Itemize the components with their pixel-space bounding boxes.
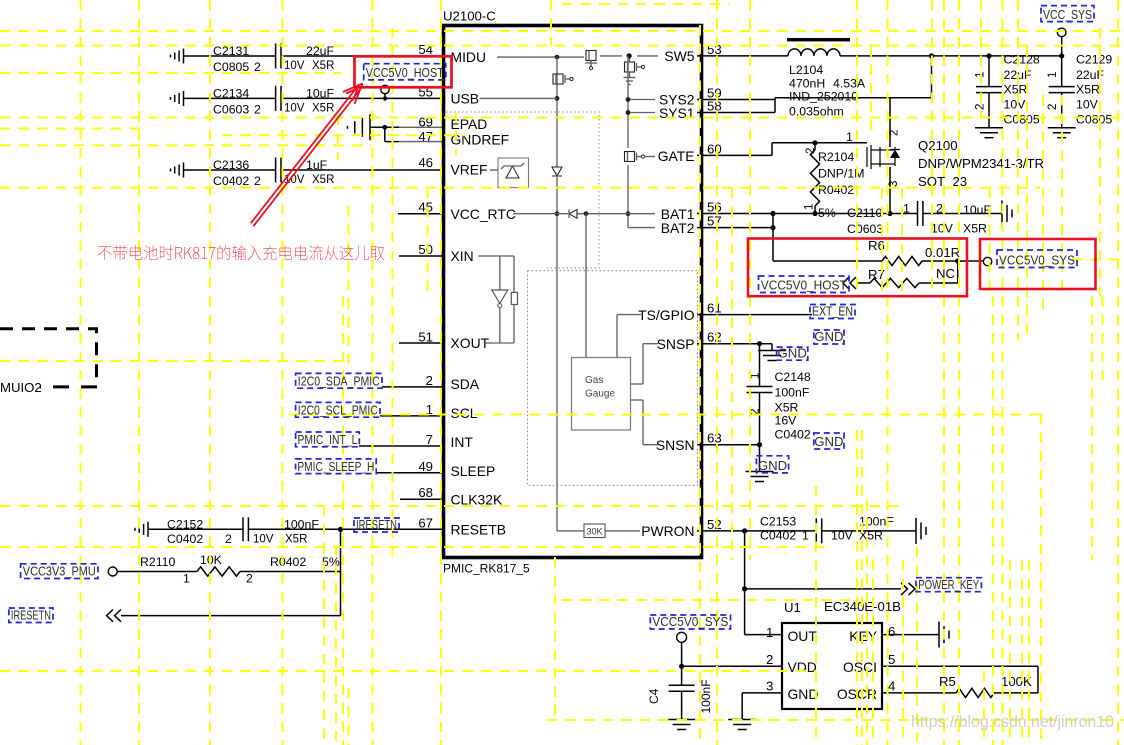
svg-text:DNP/WPM2341-3/TR: DNP/WPM2341-3/TR (918, 156, 1044, 171)
svg-text:VDD: VDD (788, 659, 817, 675)
wire pin51 XOUT stub (399, 342, 442, 344)
zener VREF box (490, 158, 529, 188)
svg-text:1: 1 (750, 373, 762, 379)
svg-text:X5R: X5R (312, 60, 334, 72)
svg-text:OUT: OUT (788, 628, 818, 644)
svg-text:100nF: 100nF (699, 679, 713, 713)
svg-text:R5: R5 (939, 674, 956, 689)
svg-text:XOUT: XOUT (451, 335, 490, 351)
transistor Q2100 DNP/WPM2341-3/TR (867, 98, 1044, 214)
svg-text:10uF: 10uF (963, 203, 992, 217)
svg-text:Gauge: Gauge (585, 389, 615, 400)
svg-text:50: 50 (418, 242, 433, 257)
pin numbers right (707, 42, 722, 532)
node PMIC_SLEEP_H label (296, 459, 377, 474)
wire internal SNSP (631, 344, 659, 384)
svg-text:X5R: X5R (1004, 83, 1028, 97)
svg-text:1: 1 (766, 625, 773, 640)
svg-text:GATE: GATE (658, 148, 695, 164)
svg-text:SNSP: SNSP (657, 336, 695, 352)
node VCC5V0_SYS label U1 (650, 614, 730, 629)
node MUIO2 dashed block (0, 329, 97, 395)
node GND label 3 (814, 433, 844, 449)
svg-text:100nF: 100nF (284, 518, 319, 532)
svg-text:54: 54 (418, 42, 433, 57)
svg-text:PWRON: PWRON (641, 523, 694, 539)
wire SYS feedback (697, 56, 932, 113)
svg-text:USB: USB (451, 91, 480, 107)
node GND label 4 (756, 456, 788, 473)
capacitor C2131 22uF (171, 44, 443, 75)
svg-text:470nH: 470nH (789, 77, 825, 91)
svg-text:BAT2: BAT2 (661, 220, 695, 236)
svg-text:1: 1 (183, 572, 190, 586)
svg-text:C0805: C0805 (1004, 113, 1040, 127)
pin numbers left (418, 42, 433, 530)
svg-text:C2148: C2148 (775, 370, 811, 384)
svg-text:GND: GND (758, 458, 787, 473)
svg-text:X5R: X5R (285, 534, 307, 546)
node dotted section boundaries (446, 112, 698, 485)
wire internal vertical bus (555, 57, 560, 531)
node VCC5V0_HOST label R7 (759, 276, 850, 293)
svg-text:SNSN: SNSN (656, 437, 695, 453)
svg-text:SCL: SCL (451, 405, 478, 421)
capacitor C2136 1uF (171, 158, 443, 189)
svg-text:61: 61 (707, 301, 722, 316)
svg-text:X5R: X5R (775, 401, 799, 415)
wire PMIC_SLEEP_H to pin49 (376, 472, 442, 474)
wire internal SYS vertical (626, 56, 631, 228)
wire U1 OSCI (882, 666, 1038, 693)
svg-text:C2110: C2110 (847, 206, 882, 220)
svg-text:47: 47 (418, 129, 433, 144)
svg-text:SLEEP: SLEEP (451, 463, 496, 479)
svg-text:10V: 10V (931, 222, 954, 236)
svg-text:2: 2 (246, 572, 253, 586)
capacitor C2148 100nF (747, 344, 811, 445)
svg-text:IRESETN: IRESETN (356, 517, 397, 532)
wire I2C0_SDA_PMIC to pin2 (382, 386, 442, 388)
node VCC5V0_SYS label mid (997, 250, 1077, 268)
svg-text:XIN: XIN (451, 248, 474, 264)
svg-text:Q2100: Q2100 (918, 138, 958, 153)
svg-text:C0402: C0402 (167, 532, 203, 546)
ground at SNSP (697, 341, 786, 360)
svg-text:51: 51 (418, 330, 433, 345)
svg-text:49: 49 (418, 459, 433, 474)
svg-text:2: 2 (254, 174, 261, 188)
svg-text:2: 2 (889, 130, 901, 136)
svg-text:1: 1 (903, 202, 910, 216)
svg-text:10V: 10V (284, 102, 305, 114)
svg-text:SW5: SW5 (664, 48, 694, 64)
svg-text:100K: 100K (1001, 674, 1032, 689)
wire U1 KEY ground (882, 622, 949, 648)
svg-text:U2100-C: U2100-C (443, 9, 496, 24)
svg-text:R0402: R0402 (270, 555, 306, 569)
node POWER_KEY label (916, 577, 981, 592)
svg-text:100nF: 100nF (775, 386, 810, 400)
transistor internal M4 GATE (625, 152, 656, 162)
wire PMIC_INT_L to pin7 (359, 445, 442, 447)
svg-text:MUIO2: MUIO2 (0, 380, 42, 395)
crystal oscillator XIN/XOUT (478, 256, 518, 343)
capacitor C2152 100nF (135, 517, 442, 546)
svg-text:R2104: R2104 (818, 150, 854, 164)
svg-text:OSCI: OSCI (843, 659, 877, 675)
svg-text:VCC_SYS: VCC_SYS (1043, 7, 1092, 22)
svg-text:C0805: C0805 (1076, 113, 1112, 127)
svg-text:C2153: C2153 (760, 515, 796, 529)
svg-text:https://blog.csdn.net/jinron10: https://blog.csdn.net/jinron10 (911, 712, 1114, 731)
capacitor C2110 10uF (697, 201, 1012, 262)
svg-text:10V: 10V (831, 529, 854, 543)
svg-text:10V: 10V (1004, 98, 1027, 112)
wire GATE (697, 130, 867, 155)
svg-text:C2136: C2136 (213, 158, 249, 172)
transistor internal M2 (624, 56, 645, 85)
svg-text:2: 2 (254, 102, 261, 116)
svg-text:VCC5V0_HOST: VCC5V0_HOST (761, 278, 847, 293)
wire pin50 XIN stub (399, 255, 442, 257)
svg-text:VREF: VREF (451, 161, 488, 177)
block 30K (557, 524, 640, 538)
svg-text:56: 56 (707, 200, 722, 215)
svg-text:2: 2 (225, 532, 232, 546)
svg-text:4: 4 (888, 679, 895, 694)
svg-text:X5R: X5R (312, 174, 334, 186)
svg-text:GND: GND (814, 329, 843, 344)
svg-text:U1: U1 (784, 600, 801, 615)
svg-text:C2129: C2129 (1076, 53, 1112, 67)
svg-text:46: 46 (418, 155, 433, 170)
resistor R7 NC (843, 261, 958, 289)
ground at SNSN (697, 442, 774, 481)
svg-text:C2134: C2134 (213, 86, 249, 100)
diode internal D1 down (552, 167, 562, 176)
svg-text:2: 2 (426, 373, 433, 388)
wire I2C0_SCL_PMIC to pin1 (380, 415, 442, 417)
svg-text:VCC5V0_HOST: VCC5V0_HOST (366, 65, 444, 80)
svg-text:C0805: C0805 (213, 60, 249, 74)
wire IRESETN to chevron (107, 610, 341, 622)
svg-text:1: 1 (802, 529, 809, 543)
svg-text:IND_252010: IND_252010 (789, 90, 858, 104)
svg-text:X5R: X5R (1076, 83, 1100, 97)
svg-text:POWER_KEY: POWER_KEY (918, 577, 979, 592)
svg-text:1: 1 (1047, 72, 1059, 78)
svg-text:2: 2 (805, 148, 817, 154)
capacitor C2129 22uF (1047, 53, 1112, 138)
wire internal VCC_RTC (513, 211, 655, 216)
node VCC3V3_PMU label (21, 564, 98, 579)
wire reset net vertical (340, 529, 342, 615)
resistor R2104 DNP/1M (804, 143, 865, 220)
svg-text:67: 67 (418, 515, 433, 530)
capacitor C2128 22uF (975, 53, 1040, 138)
svg-text:3: 3 (888, 181, 900, 187)
svg-text:I2C0_SDA_PMIC: I2C0_SDA_PMIC (298, 373, 380, 388)
svg-text:7: 7 (426, 432, 433, 447)
svg-text:10V: 10V (284, 60, 305, 72)
op-amp U1 EC340E-01B (766, 599, 901, 709)
svg-text:C2128: C2128 (1004, 53, 1040, 67)
svg-text:X5R: X5R (963, 222, 987, 236)
svg-text:30K: 30K (586, 527, 602, 537)
svg-text:I2C0_SCL_PMIC: I2C0_SCL_PMIC (298, 402, 378, 417)
block Gas Gauge (572, 214, 631, 430)
svg-text:C4: C4 (647, 688, 661, 704)
node I2C0_SCL_PMIC label (296, 402, 380, 417)
svg-text:57: 57 (707, 214, 722, 229)
node I2C0_SDA_PMIC label (296, 373, 382, 388)
resistor R2110 10K (108, 553, 340, 586)
svg-text:0.01R: 0.01R (925, 245, 960, 260)
node PMIC_INT_L label (296, 432, 360, 447)
svg-text:EXT_EN: EXT_EN (812, 304, 853, 319)
svg-text:10K: 10K (200, 553, 223, 567)
svg-text:PMIC_INT_L: PMIC_INT_L (297, 432, 357, 447)
wire U1 GND ground (728, 693, 782, 730)
net port VCC_SYS terminal (1057, 28, 1066, 56)
node GND label 2 (777, 345, 808, 360)
inductor L2104 470nH (697, 38, 1064, 119)
svg-text:L2104: L2104 (789, 63, 823, 77)
svg-text:4.53A: 4.53A (833, 77, 866, 91)
svg-text:63: 63 (707, 431, 722, 446)
svg-text:GND: GND (814, 434, 843, 449)
svg-text:C2152: C2152 (167, 518, 203, 532)
svg-text:C0603: C0603 (847, 222, 883, 236)
svg-text:SDA: SDA (451, 376, 480, 392)
wire internal SW5 (600, 53, 658, 58)
wire pin68 CLK32K stub (400, 498, 442, 500)
svg-text:10uF: 10uF (306, 86, 335, 100)
svg-text:Gas: Gas (585, 375, 603, 386)
svg-text:0.035ohm: 0.035ohm (789, 105, 844, 119)
svg-text:MIDU: MIDU (451, 49, 487, 65)
capacitor C4 100nF (647, 666, 713, 729)
svg-text:52: 52 (707, 517, 722, 532)
svg-text:45: 45 (418, 200, 433, 215)
svg-text:100nF: 100nF (859, 515, 894, 529)
capacitor C2153 100nF (697, 515, 926, 544)
wire internal SYS2 (630, 99, 655, 101)
node EXT_EN label (810, 304, 855, 319)
svg-text:10V: 10V (253, 534, 274, 546)
svg-text:58: 58 (707, 99, 722, 114)
svg-text:3: 3 (766, 679, 773, 694)
pin names left (451, 49, 516, 537)
node IRESETN label left (9, 608, 53, 623)
svg-text:1: 1 (846, 130, 853, 144)
node VCC5V0_HOST label top (364, 64, 446, 80)
wire internal SYS1 (630, 112, 655, 114)
svg-text:VCC_RTC: VCC_RTC (451, 206, 516, 222)
svg-text:68: 68 (418, 485, 433, 500)
svg-text:C0402: C0402 (213, 174, 249, 188)
node GND label 1 (814, 329, 844, 344)
op-amp U2100-C PMIC_RK817_5 IC body (443, 9, 702, 576)
wire internal BAT2 (628, 227, 655, 229)
svg-text:GND: GND (778, 345, 807, 360)
svg-text:2: 2 (254, 60, 261, 74)
diode internal D2 left (569, 210, 577, 219)
svg-text:5: 5 (888, 652, 895, 667)
svg-text:53: 53 (707, 42, 722, 57)
svg-text:62: 62 (707, 330, 722, 345)
svg-text:6: 6 (888, 624, 895, 639)
capacitor C2134 10uF (171, 86, 443, 117)
svg-text:IRESETN: IRESETN (11, 608, 51, 623)
svg-text:X5R: X5R (312, 102, 334, 114)
resistor R5 100K (882, 674, 1038, 698)
svg-text:1uF: 1uF (306, 158, 328, 172)
wire pin45 VCC_RTC stub (398, 213, 442, 215)
svg-text:R0402: R0402 (818, 183, 854, 197)
svg-text:INT: INT (451, 434, 474, 450)
wire U1 VDD (679, 664, 782, 669)
red annotation box around VCC5V0_HOST (355, 56, 452, 87)
net port VCC5V0_HOST terminal (381, 85, 389, 100)
wire internal USB (480, 97, 557, 99)
svg-text:RESETB: RESETB (451, 522, 507, 538)
wire U1 OUT (745, 634, 782, 636)
resistor R6 0.01R (773, 238, 983, 266)
net port VCC5V0_SYS terminal mid (983, 257, 991, 265)
svg-text:2: 2 (1047, 104, 1059, 110)
svg-text:C0402: C0402 (775, 428, 811, 442)
ground EPAD/GNDREF (347, 114, 442, 141)
wire internal TS/GPIO (617, 315, 641, 358)
red annotation arrow (251, 84, 363, 227)
svg-text:10V: 10V (1076, 98, 1099, 112)
transistor internal M1 (585, 51, 597, 70)
svg-text:VCC5V0_SYS: VCC5V0_SYS (652, 614, 728, 629)
pin names right (638, 48, 695, 539)
svg-text:VCC3V3_PMU: VCC3V3_PMU (23, 564, 96, 579)
red annotation box around R6 R7 (748, 239, 967, 297)
svg-text:2: 2 (766, 652, 773, 667)
svg-text:C0603: C0603 (213, 102, 249, 116)
red annotation chinese text (98, 245, 384, 260)
svg-text:C0402: C0402 (760, 529, 796, 543)
svg-text:2: 2 (936, 202, 943, 216)
svg-text:1: 1 (804, 204, 816, 210)
transistor internal M3 (553, 74, 573, 84)
svg-text:PMIC_SLEEP_H: PMIC_SLEEP_H (297, 459, 374, 474)
wire EXT_EN pin61 (697, 314, 812, 316)
wire internal MIDU (497, 55, 584, 60)
svg-text:GNDREF: GNDREF (451, 132, 510, 148)
svg-text:R2110: R2110 (140, 555, 175, 569)
node IRESETN label mid (354, 517, 399, 532)
svg-text:VCC5V0_SYS: VCC5V0_SYS (999, 253, 1075, 268)
wire internal SNSN (631, 400, 659, 445)
svg-text:PMIC_RK817_5: PMIC_RK817_5 (443, 562, 530, 576)
svg-text:16V: 16V (775, 414, 798, 428)
red annotation box around VCC5V0_SYS (980, 239, 1096, 289)
svg-text:2: 2 (975, 104, 987, 110)
net port VCC5V0_SYS terminal U1 (677, 632, 687, 666)
svg-text:60: 60 (707, 141, 722, 156)
svg-text:GND: GND (788, 686, 819, 702)
svg-text:NC: NC (936, 266, 956, 281)
svg-text:TS/GPIO: TS/GPIO (638, 307, 695, 323)
svg-text:CLK32K: CLK32K (451, 492, 503, 508)
wire POWER_KEY (742, 531, 915, 635)
watermark (911, 712, 1114, 731)
node VCC_SYS label (1041, 6, 1094, 22)
